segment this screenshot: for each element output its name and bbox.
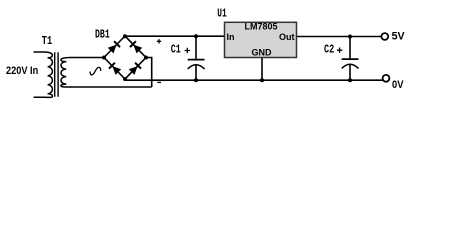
- capacitor C2 plates: [342, 58, 359, 60]
- minus sign bridge DC-: [157, 81, 161, 83]
- junction node top vertex: [123, 34, 127, 38]
- svg-text:0V: 0V: [392, 79, 404, 91]
- junction node GND: [260, 78, 264, 82]
- svg-text:GND: GND: [252, 48, 273, 58]
- capacitor C1 plates: [188, 59, 205, 61]
- junction node C1 bottom: [194, 78, 198, 82]
- junction node left vertex: [102, 56, 106, 60]
- junction node right vertex: [144, 56, 148, 60]
- svg-text:C1: C1: [171, 43, 181, 57]
- transformer T1 primary winding: [34, 52, 53, 58]
- svg-text:220V In: 220V In: [6, 65, 38, 77]
- wire C1 bottom lead: [195, 65, 197, 80]
- svg-text:DB1: DB1: [95, 28, 110, 42]
- wire C2 bottom lead: [349, 65, 351, 81]
- diode D2 (bridge top-right): [130, 41, 142, 53]
- diode D4 (bridge bottom-right): [129, 63, 141, 75]
- junction node bottom vertex: [123, 77, 127, 81]
- terminal 5V: [381, 33, 388, 40]
- terminal 0V: [383, 75, 390, 82]
- wire bridge right vertex riser: [146, 58, 152, 88]
- wire regulator GND lead: [261, 58, 263, 81]
- transformer T1 core: [54, 52, 56, 97]
- plus sign bridge DC+: [157, 39, 161, 43]
- svg-text:U1: U1: [217, 6, 226, 20]
- AC wave symbol: [90, 67, 101, 75]
- svg-text:LM7805: LM7805: [244, 22, 277, 32]
- diode D1 (bridge top-left): [108, 41, 120, 53]
- wire C2 top lead: [349, 37, 351, 59]
- svg-text:T1: T1: [42, 34, 52, 48]
- wire C1 top lead: [195, 36, 197, 59]
- transformer T1 secondary winding: [61, 58, 71, 62]
- junction node C1 top: [194, 34, 198, 38]
- wire DC- 0V rail: [124, 79, 383, 81]
- junction node C2 top: [348, 35, 352, 39]
- svg-text:C2: C2: [324, 42, 334, 56]
- diode D3 (bridge bottom-left): [109, 63, 121, 75]
- svg-text:5V: 5V: [392, 31, 406, 43]
- wire secondary bottom lead to bridge right vertex riser: [70, 86, 152, 88]
- wire secondary top lead to bridge: [70, 57, 104, 59]
- bridge rectifier DB1 diamond: [104, 36, 146, 79]
- junction node C2 bottom: [348, 78, 352, 82]
- op-amp U1 regulator box: [225, 22, 297, 57]
- plus sign C2 polarity: [337, 48, 342, 53]
- svg-text:In: In: [227, 32, 235, 42]
- wire regulator Out to 5V terminal: [297, 36, 382, 38]
- wire DC+ top rail to regulator In: [125, 35, 225, 37]
- plus sign C1 polarity: [185, 48, 190, 53]
- svg-text:Out: Out: [279, 32, 295, 42]
